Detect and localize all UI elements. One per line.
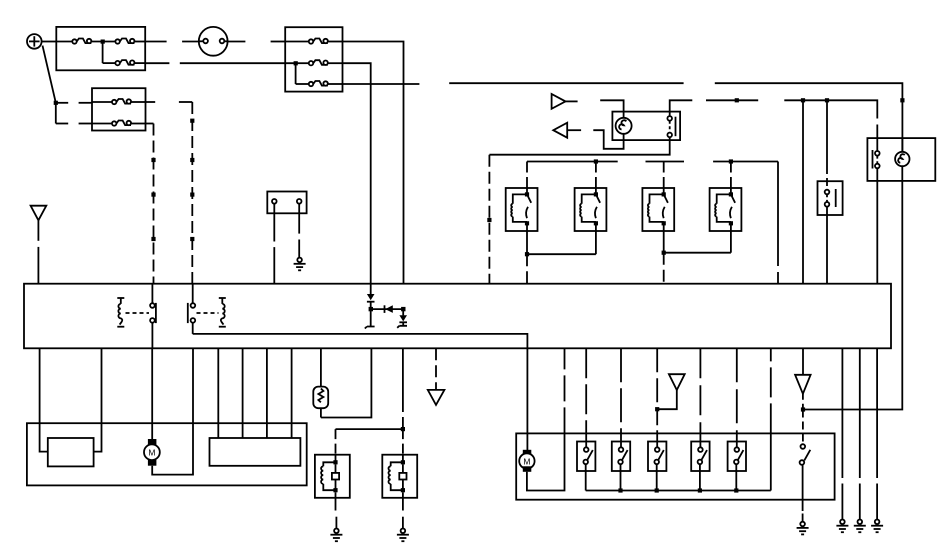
dash-dot wire column x192.3 to main box	[190, 102, 194, 284]
fuse F3	[103, 60, 146, 65]
wire U2 switch bottom to main box	[876, 181, 878, 284]
wire battery to fuse box 1	[42, 41, 57, 43]
wire feed switch W1	[585, 348, 587, 441]
wire fuse box1 row2 to long feed	[145, 62, 169, 64]
diode D2	[371, 305, 404, 313]
wire row3 bus segment 2	[449, 82, 683, 84]
wire lamp loop	[321, 348, 372, 417]
wire feed switch W2	[620, 348, 622, 441]
ground G3	[797, 522, 809, 535]
internal relay IR2 link	[197, 312, 219, 314]
relay U2 coil	[895, 138, 909, 181]
ground G1	[330, 529, 342, 542]
wire motor M1 return	[152, 348, 193, 474]
internal relay IR1 contacts	[150, 284, 156, 349]
solenoid S2	[315, 455, 350, 498]
wire main box to ground G4	[841, 348, 843, 519]
wire row3 bus segment 1	[343, 83, 420, 85]
internal relay IR1 coil	[117, 298, 124, 327]
connector arrow T3 (antenna style)	[31, 206, 47, 284]
ground G7	[294, 258, 306, 271]
wire bus return to main box	[770, 348, 772, 490]
lower left unit box	[27, 423, 307, 485]
wire main box to ground G6	[876, 348, 878, 519]
wire rail to relay K1	[526, 162, 528, 189]
wire K3 to main box	[663, 253, 665, 284]
switch W1	[577, 442, 595, 472]
switch W5	[728, 442, 746, 472]
display unit rect1	[48, 438, 94, 466]
diode D3	[399, 309, 407, 326]
wire main box to wiper motor M2	[526, 348, 528, 450]
relay K2	[575, 188, 607, 231]
wire dot D to solenoid S3	[402, 429, 404, 455]
wire feed switch W3 with T4 junction	[655, 348, 659, 441]
junction dot C	[54, 101, 58, 105]
relay U1 contacts	[667, 112, 675, 141]
wire feed to solenoid S3	[402, 348, 404, 429]
jumper K3-K4	[662, 231, 731, 255]
switch W6	[800, 444, 811, 465]
relay K3	[642, 188, 674, 231]
relay row feed rail	[527, 159, 778, 283]
fuse F7	[92, 99, 146, 104]
solenoid S3	[382, 455, 417, 498]
relay K4	[710, 188, 742, 231]
motor M2	[519, 450, 534, 472]
terminal foot D3	[397, 326, 407, 328]
wire relay U1 coil bottom to T2	[593, 130, 623, 149]
wire row1 to node at x403.5	[343, 42, 404, 284]
internal output rail to wiper motor	[193, 334, 528, 348]
heater control rect2	[210, 438, 301, 466]
dash-dot wire column x153.5 to main box	[151, 124, 155, 284]
switch W3	[648, 442, 666, 472]
wire motor M2 return	[527, 348, 565, 490]
wire pin to rect1 right	[94, 348, 102, 451]
fuse box 2	[285, 27, 342, 91]
fuse F1	[56, 39, 91, 44]
switch W4	[691, 442, 709, 472]
wire pin rect2 c	[266, 348, 268, 438]
main control box	[24, 284, 891, 349]
connector arrow T2	[553, 123, 581, 138]
internal relay IR2 contacts	[188, 284, 195, 334]
wire fuse box1 row1 to ignition	[145, 41, 166, 43]
connector arrow T6	[428, 348, 445, 405]
junction dot B	[294, 61, 298, 65]
svg-text:M: M	[523, 456, 530, 466]
jumper K1-K2	[525, 231, 596, 256]
relay U2 box	[867, 138, 935, 181]
wire pin rect2 a	[217, 348, 219, 438]
fuse F2	[115, 39, 145, 44]
wire feed switch W5	[736, 348, 738, 441]
fuse box 1	[56, 27, 145, 70]
relay K1	[506, 188, 538, 231]
motor M1	[144, 348, 160, 465]
wire pin to rect1 left	[40, 348, 48, 451]
wire dot E to switch W6	[802, 410, 804, 445]
wire pin rect2 d	[291, 348, 293, 438]
wire CN1 right pin to ground G7	[298, 204, 300, 258]
diode D1	[367, 284, 375, 327]
wire dot B down to row3	[295, 63, 297, 84]
connector arrow T1	[552, 94, 578, 109]
relay U2 contacts	[873, 138, 880, 181]
wire S2 to ground	[335, 498, 338, 529]
relay U1 coil	[616, 112, 632, 141]
relay U1 box	[612, 112, 680, 141]
wire feed switch W4	[699, 348, 701, 441]
wire row2 to node at x370.7	[343, 63, 371, 284]
lower right unit box	[516, 433, 834, 499]
wire dot C to fuse box 3 row1	[56, 102, 92, 104]
ignition switch SW	[199, 27, 228, 56]
battery positive cable diagonal	[43, 46, 56, 103]
wire dot C down to row2	[56, 103, 92, 124]
ground G6	[871, 520, 883, 533]
junction dot on feed x803	[801, 98, 805, 102]
fuse box 3	[92, 88, 146, 130]
wire F8 output to column x153.5	[146, 123, 154, 125]
wire main box to ground G5	[859, 348, 861, 519]
switch W2	[612, 442, 630, 472]
wire rail to relay K4	[730, 162, 732, 189]
connector arrow T4	[657, 374, 685, 409]
fuse F6	[296, 81, 343, 86]
wire W6 to ground G3	[802, 465, 804, 522]
fuse F8	[92, 121, 146, 126]
internal relay IR1 link	[126, 312, 150, 314]
wire relay U1 switch top feed	[670, 98, 878, 138]
wire ignition to fuse box 2	[228, 41, 246, 43]
wire T1 to relay U1 coil top	[600, 100, 623, 111]
wire main box to T5	[802, 348, 804, 375]
connector box CN1	[267, 192, 306, 214]
connector arrow T5	[795, 375, 811, 410]
fuse F4	[285, 39, 342, 44]
wire relay U1 output to main box	[487, 140, 669, 284]
wire x803 feed to main box	[802, 100, 804, 283]
junction dot x902.4	[900, 98, 904, 102]
wire rail to relay K3	[663, 162, 665, 189]
wire feed to S1	[826, 100, 828, 189]
wire elbow to solenoid S2	[336, 429, 403, 455]
ground G5	[854, 520, 866, 533]
wire K1 to main box	[526, 254, 528, 284]
wire S3 to ground	[402, 498, 404, 529]
internal relay IR2 coil	[219, 298, 226, 327]
wire dot A down to row 2	[102, 42, 104, 64]
junction dot D	[401, 427, 405, 431]
switch S1 box	[818, 181, 843, 215]
wire row3 bus segment 3	[715, 83, 903, 152]
fuse F5	[296, 60, 343, 65]
junction dot D3	[401, 307, 405, 311]
ground G4	[836, 520, 848, 533]
junction dot on feed x827	[825, 98, 829, 102]
lamp L1	[313, 348, 328, 417]
terminal foot D1	[365, 327, 375, 329]
wire U2 coil bottom to junction dot D	[803, 181, 902, 410]
junction dot D1	[369, 307, 373, 311]
wire long feed row2	[180, 62, 296, 64]
switch bus	[586, 471, 771, 493]
svg-text:M: M	[148, 448, 155, 458]
wire pin rect2 b	[242, 348, 244, 438]
junction dot E	[801, 407, 805, 411]
wire CN1 left pin to main box	[273, 204, 275, 284]
junction dot A	[91, 40, 115, 44]
wire F7 output to column x192.3	[146, 101, 193, 103]
wire S1 to main box	[826, 207, 828, 284]
wire rail to relay K2	[595, 162, 597, 189]
ground G2	[397, 529, 409, 542]
battery B1	[27, 34, 42, 49]
